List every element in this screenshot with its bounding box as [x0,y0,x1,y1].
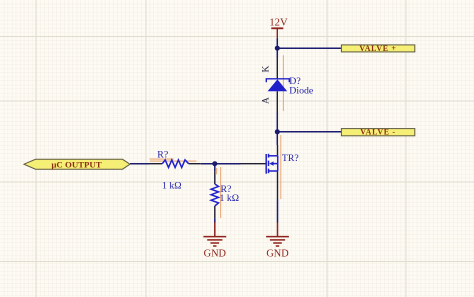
svg-text:1 kΩ: 1 kΩ [162,180,182,191]
svg-text:12V: 12V [269,17,288,28]
svg-text:TR?: TR? [282,153,299,164]
svg-text:VALVE +: VALVE + [359,44,396,53]
svg-text:VALVE -: VALVE - [360,128,395,137]
svg-text:A: A [262,97,272,104]
svg-text:Diode: Diode [289,86,314,97]
svg-text:1 kΩ: 1 kΩ [220,193,240,204]
svg-text:K: K [262,65,272,72]
svg-text:R?: R? [157,150,168,161]
svg-text:GND: GND [266,249,289,260]
svg-text:µC OUTPUT: µC OUTPUT [51,159,101,169]
svg-text:GND: GND [204,249,227,260]
